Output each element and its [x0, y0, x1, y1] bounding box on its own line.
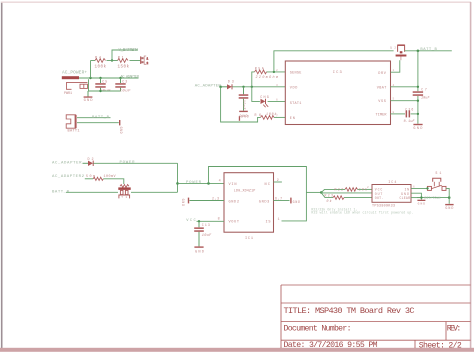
connector JP1	[141, 56, 149, 65]
pin IN label	[405, 187, 410, 191]
svg-text:IC1: IC1	[245, 237, 253, 241]
svg-text:VSS: VSS	[378, 100, 386, 104]
pin CLEAR label	[400, 196, 411, 200]
label IC3	[333, 71, 343, 75]
wire battery rail vertical	[417, 51, 419, 124]
svg-text:GND3: GND3	[259, 200, 270, 204]
resistor F1	[93, 177, 103, 180]
label C7	[421, 87, 427, 91]
pin VBAT label	[377, 87, 387, 91]
value 10uF C13	[202, 234, 212, 238]
svg-text:VCC: VCC	[186, 219, 196, 223]
pin GND3 label	[259, 200, 270, 204]
wire IN to switch	[411, 187, 427, 189]
wire cap bottoms	[89, 79, 121, 91]
node AC_ADAPTER label top	[121, 75, 140, 79]
wire top rail to battery	[405, 50, 452, 52]
svg-text:BATT_B: BATT_B	[92, 116, 110, 120]
pin TIMER label	[376, 114, 388, 118]
svg-text:GND: GND	[445, 206, 453, 210]
wire enable pulldown path	[221, 87, 286, 122]
document number label	[284, 324, 352, 334]
svg-text:IN: IN	[405, 187, 410, 191]
pin number 2 NC	[277, 178, 279, 182]
label R5	[255, 67, 265, 71]
svg-text:4: 4	[219, 180, 221, 184]
svg-text:BATT1: BATT1	[68, 129, 80, 133]
label C13	[202, 223, 210, 227]
pin SENSE label	[290, 71, 302, 75]
pin number 4 VIN	[219, 180, 221, 184]
svg-text:4: 4	[393, 84, 395, 87]
wire divider feed	[90, 61, 92, 79]
pin number 1 DRV	[393, 69, 395, 72]
ground below C13	[194, 246, 204, 254]
pin VIN label	[229, 183, 237, 187]
pin number 1 IS	[278, 217, 280, 221]
pin stub GND3	[274, 200, 290, 202]
junction sense top	[273, 71, 275, 73]
svg-text:1: 1	[393, 69, 395, 72]
wire POWER row1	[94, 162, 178, 164]
junction VSS	[417, 100, 419, 102]
svg-text:Sheet: 2/2: Sheet: 2/2	[419, 340, 462, 350]
svg-text:VBAT: VBAT	[377, 87, 387, 91]
svg-text:CLEAR: CLEAR	[400, 196, 411, 200]
junction sense branch	[251, 86, 253, 88]
capacitor C26	[406, 110, 411, 117]
svg-text:1: 1	[278, 217, 280, 221]
svg-text:6,7: 6,7	[275, 197, 282, 201]
svg-text:EN: EN	[290, 117, 295, 121]
junction AC_POWER b	[99, 77, 101, 79]
pin EN label	[290, 117, 295, 121]
ground left of IC1 rotated	[181, 198, 189, 207]
battery holder BATT1	[66, 115, 76, 128]
svg-text:100k: 100k	[95, 65, 107, 70]
svg-text:2,3: 2,3	[212, 197, 219, 201]
svg-text:GND: GND	[293, 200, 301, 204]
wire R22 branch	[321, 189, 372, 192]
wire V_BATTERY tap	[112, 50, 138, 61]
LED CHG	[261, 99, 269, 107]
svg-text:100mV: 100mV	[104, 175, 117, 179]
svg-text:R22: R22	[335, 187, 344, 191]
svg-text:AC_ADAPTER2: AC_ADAPTER2	[52, 175, 85, 179]
pin stub TIMER	[391, 113, 418, 115]
svg-text:GND: GND	[119, 127, 123, 134]
svg-text:VOUT: VOUT	[229, 221, 240, 225]
pin number 3 VDD	[276, 84, 278, 87]
jack X1 body	[66, 83, 88, 90]
junction switch left	[426, 187, 428, 189]
label C3	[122, 80, 127, 84]
pin number 2 IC4	[367, 186, 369, 189]
svg-text:VCC: VCC	[375, 187, 383, 191]
svg-text:R23: R23	[325, 193, 334, 197]
pin OUT label b	[375, 196, 384, 200]
label D2	[88, 158, 94, 162]
op-amp IC3 charger box	[285, 61, 390, 125]
value 50mA note	[86, 175, 95, 179]
wire stat1 branch	[252, 87, 285, 102]
svg-text:Document Number:: Document Number:	[284, 324, 352, 334]
pin number 6 IC4	[413, 186, 415, 189]
wire RST/TCLK	[417, 197, 449, 199]
diode D3	[221, 84, 232, 89]
svg-text:OUT.: OUT.	[375, 196, 384, 200]
pin GND label	[401, 192, 409, 196]
svg-text:GND: GND	[195, 251, 204, 255]
svg-text:AC_ADAPTER: AC_ADAPTER	[195, 85, 222, 89]
svg-text:AC_POWER+: AC_POWER+	[62, 71, 87, 76]
svg-text:150k: 150k	[118, 65, 130, 70]
op-amp IC1 regulator box	[224, 173, 274, 233]
pin VCC label	[375, 187, 383, 191]
junction AC_ADAPTER	[219, 86, 222, 89]
node BATT_B label left	[92, 116, 110, 120]
svg-text:GND: GND	[418, 203, 426, 206]
capacitor C10 rotated	[239, 87, 249, 111]
pin stub GND2	[190, 200, 225, 202]
value 100mV note	[104, 175, 117, 179]
date label	[284, 340, 378, 350]
ground right of IC1	[290, 198, 300, 204]
svg-text:10uF: 10uF	[120, 90, 132, 94]
svg-text:NC: NC	[265, 183, 271, 187]
wire POWER junction riser	[177, 163, 179, 192]
svg-text:TIMER: TIMER	[376, 114, 388, 118]
svg-text:POWER: POWER	[120, 161, 136, 165]
pin DRV label	[378, 72, 386, 76]
svg-text:0k: 0k	[327, 199, 332, 203]
node AC_ADAPTER2 label row2	[52, 175, 85, 179]
svg-text:GND2: GND2	[229, 200, 240, 204]
resistor R23	[333, 196, 344, 200]
wire row2 to switch fet	[85, 179, 124, 184]
svg-text:C13: C13	[202, 223, 210, 227]
svg-text:POWER: POWER	[186, 181, 202, 185]
label CHG	[260, 96, 269, 100]
resistor R4	[95, 59, 106, 63]
svg-text:0.1uF: 0.1uF	[404, 120, 416, 124]
pin stub VOUT	[197, 220, 225, 222]
comment note line2	[311, 211, 413, 215]
pin VOUT label	[229, 221, 240, 225]
sheet label	[419, 340, 462, 350]
label S1	[435, 171, 441, 175]
wire CLEAR stub	[411, 197, 420, 199]
junction supervisor feed	[320, 191, 323, 194]
value 10uF C5	[100, 90, 112, 94]
svg-text:GND: GND	[181, 199, 185, 207]
label R22 10k	[335, 187, 367, 191]
junction AC_POWER c	[119, 77, 121, 79]
svg-text:8: 8	[218, 217, 220, 221]
wire row B feed	[321, 192, 372, 194]
svg-text:3: 3	[276, 84, 278, 87]
wire D3 to VDD	[232, 86, 285, 88]
capacitor C13	[194, 221, 204, 246]
value 10uF C3	[120, 90, 132, 94]
pin number 4 VBAT	[393, 84, 395, 87]
svg-text:10k: 10k	[359, 188, 367, 192]
svg-text:LD0_XD4Z1P: LD0_XD4Z1P	[234, 190, 256, 194]
junction IC4 gnd cross	[420, 196, 422, 198]
svg-text:R4: R4	[95, 57, 101, 61]
value TPS3809K33	[372, 205, 395, 209]
svg-text:IS: IS	[266, 221, 271, 225]
wire POWER to VIN	[178, 182, 225, 184]
pin number 2 SENSE	[276, 69, 278, 72]
svg-text:10uF: 10uF	[202, 234, 212, 238]
svg-text:C5: C5	[102, 80, 107, 84]
jack X1 blade	[62, 76, 79, 79]
pin VSS label	[378, 100, 386, 104]
junction C10 top	[242, 86, 244, 88]
wire BATT_B row3	[66, 191, 178, 193]
comment note line1	[311, 207, 357, 211]
pin stub VSS	[391, 100, 418, 102]
label R4	[95, 57, 101, 61]
label D3	[228, 80, 234, 84]
pin OUT label a	[375, 192, 383, 196]
wire BATT_B from holder	[77, 117, 111, 119]
pin number 8	[218, 217, 220, 221]
svg-text:6: 6	[276, 98, 278, 101]
ground below jack	[84, 91, 93, 103]
wire switch to ground	[446, 188, 449, 203]
value 220mOhm	[256, 75, 279, 80]
wire sense riser	[252, 72, 285, 87]
pin GND2 label	[229, 200, 240, 204]
node VCC label	[186, 219, 196, 223]
pin VDD label	[290, 87, 298, 91]
ground near EN	[239, 114, 249, 120]
svg-text:TITLE: MSP430 TM Board Rev 3C: TITLE: MSP430 TM Board Rev 3C	[284, 306, 415, 316]
svg-text:TPS3809K33: TPS3809K33	[372, 205, 395, 209]
title block outline	[281, 285, 471, 348]
svg-text:5: 5	[393, 98, 395, 101]
resistor R22	[345, 188, 358, 192]
svg-text:STAT1: STAT1	[290, 102, 302, 106]
diode D2	[83, 161, 94, 166]
svg-text:R23 will enable LED when circu: R23 will enable LED when circuit first p…	[311, 211, 413, 215]
svg-text:R5A: R5A	[255, 67, 265, 71]
pin IS label	[266, 221, 271, 225]
svg-text:PWR1: PWR1	[64, 92, 72, 96]
ground rotated at holder	[119, 120, 123, 134]
svg-text:AC_ADAPTER: AC_ADAPTER	[52, 161, 82, 165]
svg-text:BATT_B: BATT_B	[420, 48, 437, 52]
wire R23 branch	[321, 193, 372, 198]
label IC1	[245, 237, 253, 241]
label IC4	[388, 180, 396, 184]
svg-text:AC_ADAPTER: AC_ADAPTER	[121, 75, 140, 79]
wire charge rail top	[274, 51, 394, 72]
svg-text:DRV: DRV	[378, 72, 386, 76]
label R1	[118, 57, 124, 61]
value 0k R23	[327, 199, 332, 203]
ground battery rail	[413, 124, 422, 131]
svg-text:2: 2	[277, 178, 279, 182]
junction on resistor divider	[111, 59, 113, 61]
resistor R6	[261, 116, 275, 120]
junction switch gnd	[448, 196, 451, 199]
node AC_POWER+ label	[62, 71, 87, 76]
pin stub DRV	[391, 60, 400, 72]
pin number 6,7	[275, 197, 282, 201]
capacitor C3	[115, 78, 125, 91]
pin STAT1 label	[290, 102, 302, 106]
junction BATT_B	[417, 50, 420, 53]
transistor Q2	[390, 44, 406, 60]
value 100k	[95, 65, 107, 70]
capacitor C7	[413, 91, 423, 96]
svg-text:C26: C26	[405, 107, 413, 111]
svg-text:100k: 100k	[266, 112, 277, 116]
label R23	[325, 193, 334, 197]
wire supervisor feed spur	[306, 191, 321, 193]
pin NC label	[265, 183, 271, 187]
wire resistor row	[91, 60, 141, 62]
pin number 8 TIMER	[393, 111, 395, 114]
svg-text:GND: GND	[413, 127, 422, 131]
svg-text:IC4: IC4	[388, 180, 396, 184]
svg-text:GND: GND	[84, 99, 93, 103]
node POWER label row1	[120, 161, 136, 165]
svg-text:2: 2	[276, 69, 278, 72]
junction VBAT	[417, 86, 419, 88]
label J1	[64, 92, 72, 96]
resistor R1	[118, 59, 129, 63]
svg-text:D3: D3	[228, 80, 234, 84]
wire AC_POWER main	[79, 77, 139, 79]
value 150k	[118, 65, 130, 70]
value LDO name	[234, 190, 256, 194]
ground below switch	[445, 204, 453, 210]
pin number 6 STAT1	[276, 98, 278, 101]
svg-text:SENSE: SENSE	[290, 71, 302, 75]
capacitor C5	[95, 78, 105, 91]
svg-text:10uF: 10uF	[242, 100, 246, 110]
svg-text:CHG: CHG	[260, 96, 269, 100]
value R6 100k	[255, 112, 277, 117]
node AC_ADAPTER label charger	[195, 85, 222, 89]
svg-text:Date: 3/7/2016 9:55 PM: Date: 3/7/2016 9:55 PM	[284, 340, 378, 350]
title text	[284, 306, 415, 316]
junction VIN	[207, 182, 210, 185]
wire GND stub IC4	[411, 193, 421, 199]
junction VCC	[198, 220, 200, 222]
svg-text:C7: C7	[421, 87, 427, 91]
svg-text:R1: R1	[118, 57, 124, 61]
svg-text:VIN: VIN	[229, 183, 237, 187]
transistor T1 battery switch	[118, 185, 130, 200]
svg-text:D2: D2	[88, 158, 94, 162]
node POWER label 2	[186, 181, 202, 185]
rev label	[447, 325, 462, 334]
svg-text:RST/TCLK: RST/TCLK	[424, 196, 440, 200]
node BATT_B label right	[420, 48, 437, 52]
value 10uF C7	[421, 97, 430, 101]
pin stub VBAT	[391, 86, 418, 88]
label BATT1	[68, 129, 80, 133]
svg-text:GND: GND	[241, 114, 249, 118]
label C5	[102, 80, 107, 84]
pin number 2,3	[212, 197, 219, 201]
wire enable staircase	[209, 167, 307, 221]
resistor R5 sense	[255, 70, 267, 74]
node V_BATTERY label	[119, 48, 139, 53]
junction TIMER	[417, 113, 419, 115]
svg-text:V_BATTERY: V_BATTERY	[119, 48, 139, 53]
ground below IC4 gnd pin	[417, 200, 425, 206]
svg-text:10uF: 10uF	[421, 97, 430, 101]
pin number 5 VSS	[393, 98, 395, 101]
node AC_ADAPTER label row1	[52, 161, 82, 165]
node BATT_B label row3	[52, 190, 70, 194]
label C26	[405, 107, 413, 111]
svg-text:IC3: IC3	[333, 71, 343, 75]
wire holder ground	[77, 122, 119, 124]
pin stub NC	[274, 181, 282, 183]
svg-text:C3: C3	[122, 80, 127, 84]
svg-text:8: 8	[393, 111, 395, 114]
switch S1	[427, 178, 446, 190]
op-amp IC4 supervisor box	[372, 185, 411, 203]
pin number 7 EN	[276, 114, 278, 117]
value 0.1uF C26	[404, 120, 416, 124]
junction AC_POWER a	[89, 77, 91, 79]
svg-text:VDD: VDD	[290, 87, 298, 91]
svg-text:REV:: REV:	[447, 325, 462, 334]
junction POWER	[176, 182, 179, 185]
svg-text:7: 7	[276, 114, 278, 117]
ground below C10	[239, 111, 248, 118]
junction cap bottom	[99, 90, 101, 92]
node RST/TCLK label	[424, 196, 440, 200]
